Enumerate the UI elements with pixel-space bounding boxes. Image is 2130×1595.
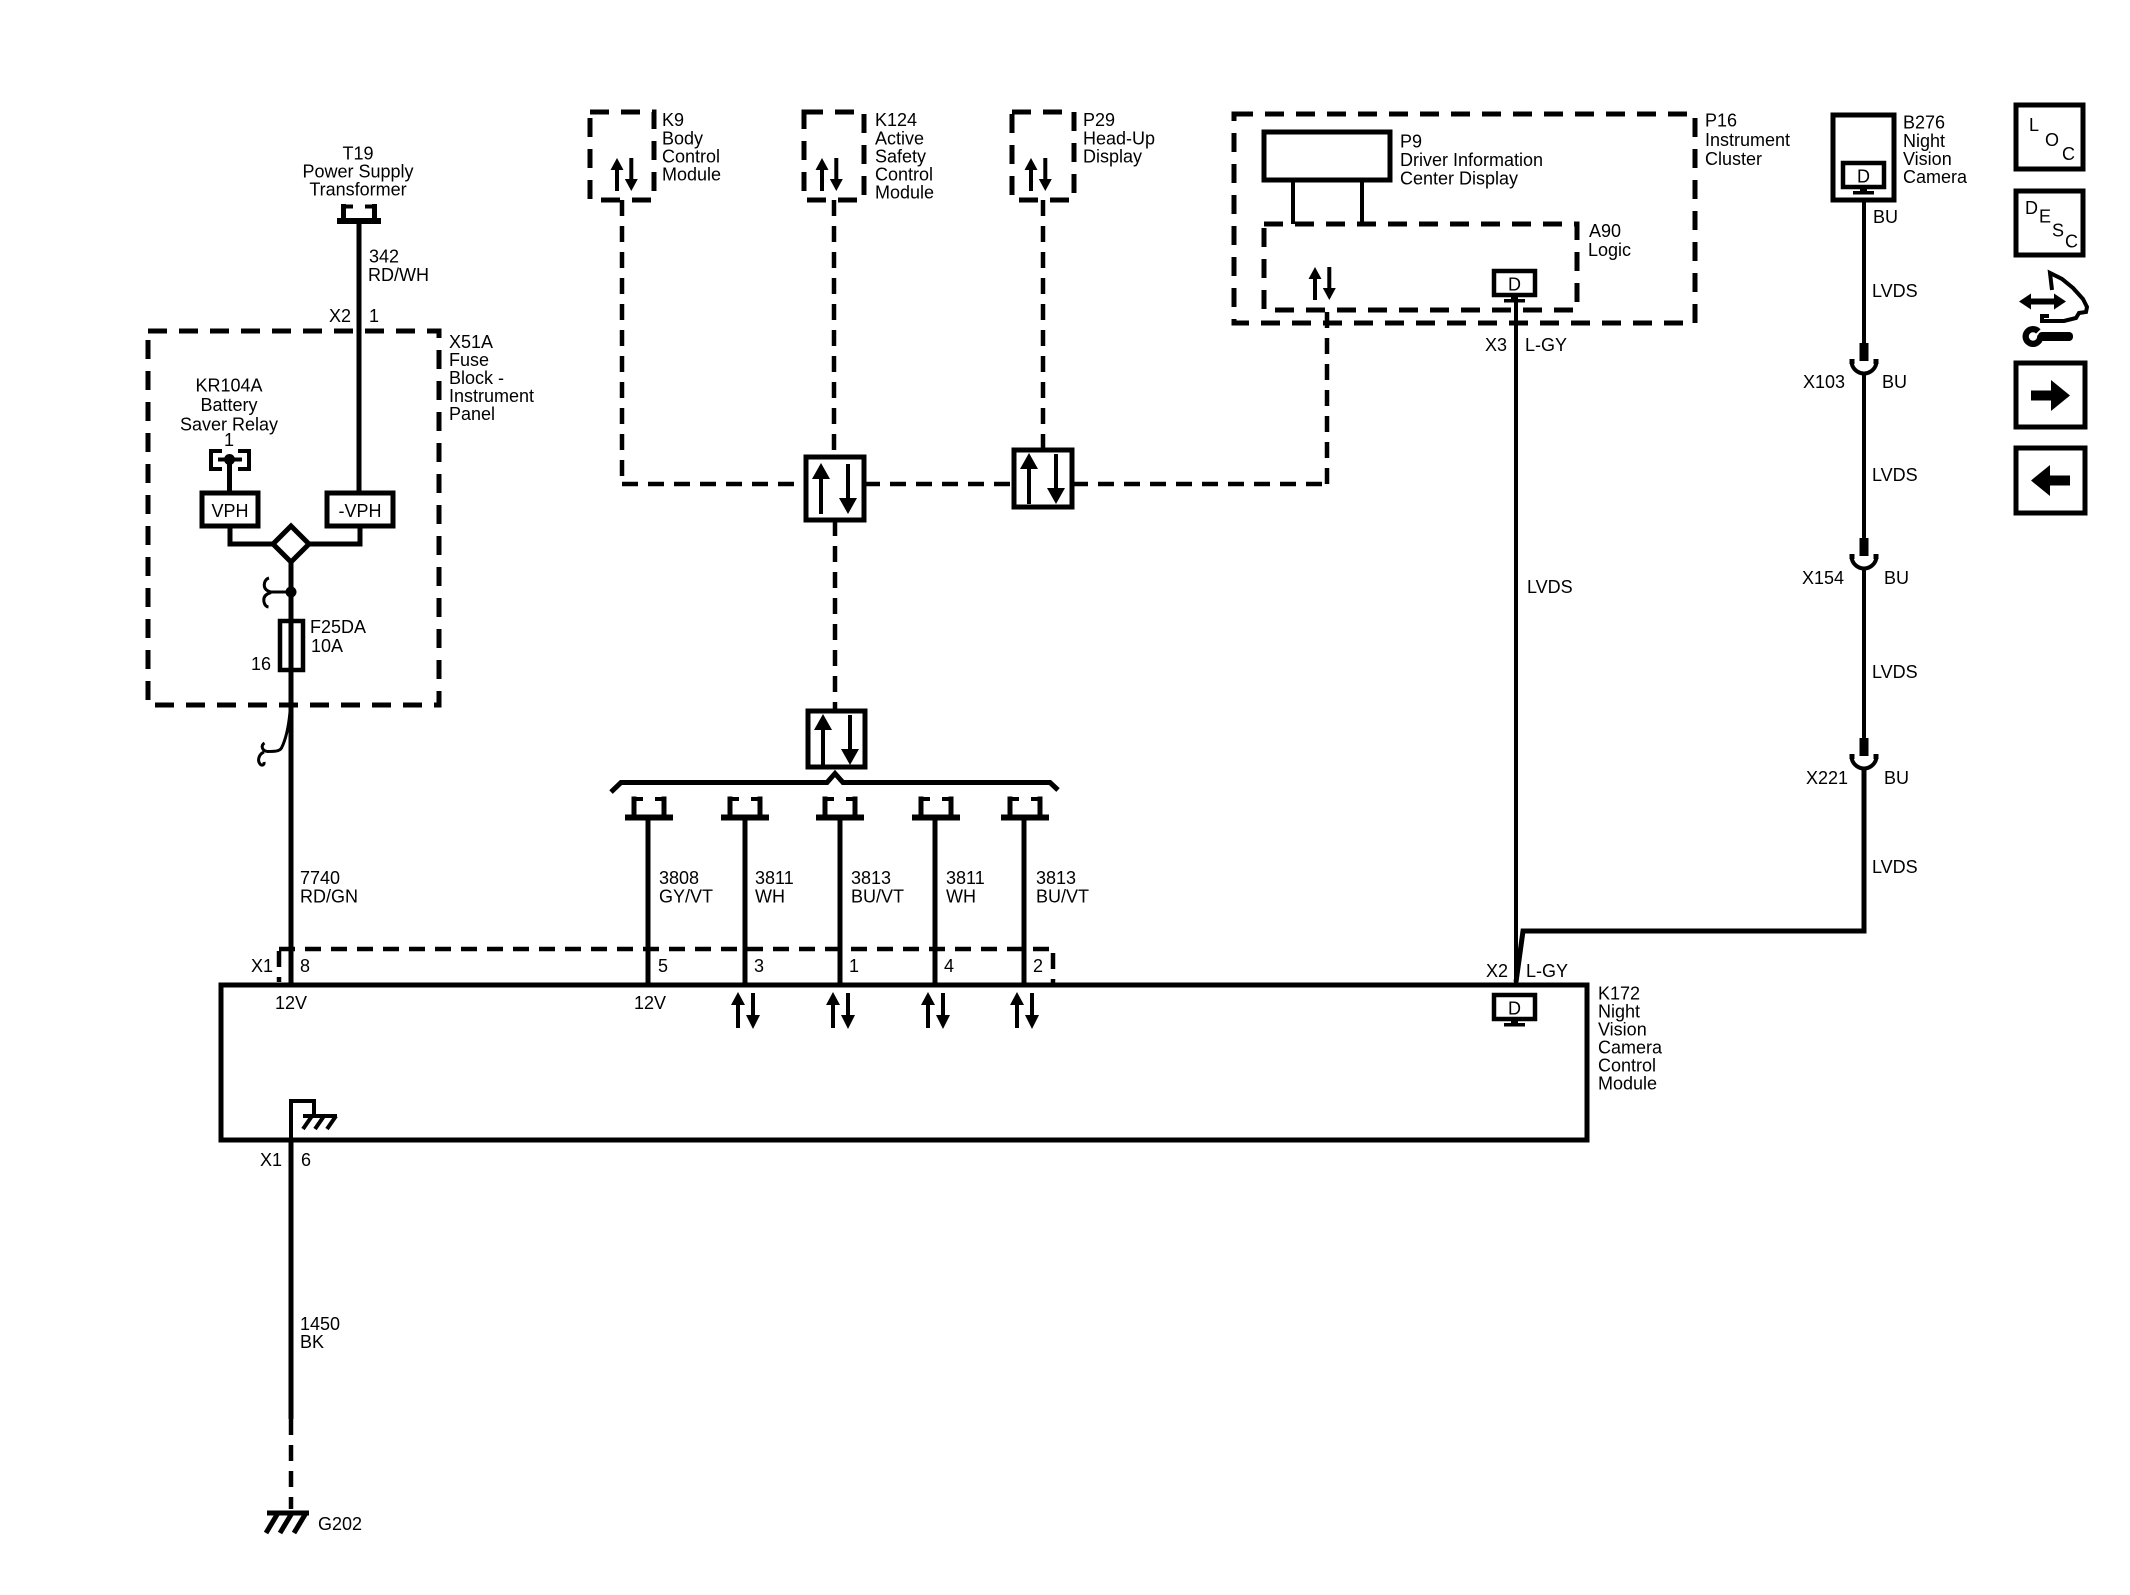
harness connector U (wire 3813 a): [816, 797, 864, 818]
wire 3813 BU/VT to K172 pin 1: [838, 820, 843, 985]
label P29 Head-Up Display: [1083, 110, 1155, 167]
svg-text:Instrument: Instrument: [1705, 130, 1790, 150]
harness connector U (wire 3813 b): [1001, 797, 1049, 818]
wire LVDS X221 to K172 connector X2: [1516, 768, 1864, 982]
label wire 3811 WH: [755, 868, 794, 907]
svg-text:WH: WH: [946, 887, 976, 907]
K172 internal ground connection: [291, 1101, 337, 1139]
module K124 dashed box: [804, 112, 864, 200]
dashed serial data bus segment K9 to K124 branch: [622, 482, 806, 487]
dashed data wire bus to A90 logic: [1325, 310, 1330, 484]
svg-text:RD/GN: RD/GN: [300, 887, 358, 907]
svg-text:K124: K124: [875, 110, 917, 130]
label K172 Night Vision Camera Control Module: [1598, 984, 1663, 1094]
K172 data arrows under pin 3: [731, 992, 760, 1029]
labels X103 BU: [1803, 372, 1907, 392]
svg-text:X1: X1: [251, 956, 273, 976]
wire VPH to splice: [230, 526, 272, 544]
wire -VPH to splice: [310, 526, 360, 544]
svg-text:6: 6: [301, 1150, 311, 1170]
terminal VPH: [202, 493, 258, 526]
legend DESC box: [2016, 191, 2083, 255]
harness connector U (wire 3811 b): [912, 797, 960, 818]
svg-text:Vision: Vision: [1598, 1020, 1647, 1040]
svg-text:16: 16: [251, 654, 271, 674]
K172 data arrows under pin 4: [921, 992, 950, 1029]
dashed data wire from K124 down to bus connector: [832, 200, 837, 457]
connector of T19 power supply transformer: [337, 204, 381, 221]
svg-text:Instrument: Instrument: [449, 386, 534, 406]
svg-text:X103: X103: [1803, 372, 1845, 392]
transformer T19 label: [302, 144, 413, 200]
dashed data wire from K9 down to bus: [620, 200, 625, 484]
dashed serial data bus segment P29 branch to A90 drop: [1072, 482, 1327, 487]
wire LVDS X103 to X154: [1862, 373, 1866, 539]
svg-text:LVDS: LVDS: [1872, 857, 1918, 877]
svg-text:Safety: Safety: [875, 147, 926, 167]
svg-text:BU: BU: [1882, 372, 1907, 392]
svg-text:WH: WH: [755, 887, 785, 907]
svg-text:P9: P9: [1400, 132, 1422, 152]
P29 serial data arrows: [1025, 158, 1052, 191]
K124 serial data arrows: [816, 158, 843, 191]
svg-text:Module: Module: [875, 183, 934, 203]
dashed serial data bus segment K124 branch to P29 branch: [864, 482, 1014, 487]
bus connector box on K124 branch: [806, 457, 864, 520]
label connector X1 pin 8: [251, 956, 310, 976]
svg-text:Fuse: Fuse: [449, 350, 489, 370]
label K124 Active Safety Control Module: [875, 110, 934, 203]
inline connector X154: [1850, 538, 1879, 569]
svg-text:BK: BK: [300, 1332, 324, 1352]
svg-text:Night: Night: [1903, 131, 1945, 151]
svg-text:2: 2: [1033, 956, 1043, 976]
K9 serial data arrows: [611, 158, 638, 191]
svg-text:BU/VT: BU/VT: [851, 887, 904, 907]
svg-text:Body: Body: [662, 129, 703, 149]
label wire 3811 WH (b): [946, 868, 985, 907]
svg-text:LVDS: LVDS: [1872, 281, 1918, 301]
wire 3808 GY/VT to K172 pin 5: [646, 820, 651, 985]
svg-text:Transformer: Transformer: [309, 180, 406, 200]
svg-text:Control: Control: [1598, 1056, 1656, 1076]
svg-text:Logic: Logic: [1588, 240, 1631, 260]
svg-text:Control: Control: [662, 147, 720, 167]
label A90 Logic: [1588, 221, 1631, 260]
module K172 Night Vision Camera Control Module box: [221, 985, 1587, 1140]
junction dot with take-off clip: [264, 578, 297, 607]
legend service wrench: [2023, 326, 2074, 347]
svg-text:C: C: [2065, 232, 2078, 252]
svg-text:Display: Display: [1083, 147, 1142, 167]
svg-text:Block -: Block -: [449, 368, 504, 388]
svg-text:Control: Control: [875, 165, 933, 185]
svg-text:GY/VT: GY/VT: [659, 887, 713, 907]
svg-text:342: 342: [369, 247, 399, 267]
svg-text:8: 8: [300, 956, 310, 976]
svg-text:3811: 3811: [946, 868, 985, 888]
svg-text:D: D: [2025, 198, 2038, 218]
fuse F25DA 10A: [280, 617, 366, 670]
label wire 3813 BU/VT (b): [1036, 868, 1089, 907]
B276 display icon D: [1843, 163, 1884, 195]
svg-text:12V: 12V: [634, 993, 666, 1013]
labels X154 BU: [1802, 568, 1909, 588]
svg-text:X51A: X51A: [449, 332, 493, 352]
svg-text:X2: X2: [1486, 961, 1508, 981]
svg-text:B276: B276: [1903, 113, 1945, 133]
legend service double arrow: [2019, 294, 2066, 310]
svg-text:X1: X1: [260, 1150, 282, 1170]
svg-text:RD/WH: RD/WH: [368, 265, 429, 285]
label X51A Fuse Block - Instrument Panel: [449, 332, 534, 424]
label wire 3808 GY/VT: [659, 868, 713, 907]
A90 serial data arrows: [1309, 267, 1336, 300]
instrument cluster P16 dashed box: [1234, 114, 1695, 323]
K172 data arrows under pin 2: [1010, 992, 1039, 1029]
svg-text:C: C: [2062, 144, 2075, 164]
inline connector X221: [1850, 738, 1879, 769]
svg-text:P16: P16: [1705, 111, 1737, 131]
svg-text:BU: BU: [1884, 768, 1909, 788]
svg-text:LVDS: LVDS: [1872, 662, 1918, 682]
label wire 7740 RD/GN: [300, 868, 358, 907]
svg-text:1: 1: [224, 430, 234, 450]
svg-text:KR104A: KR104A: [195, 376, 262, 396]
svg-text:3811: 3811: [755, 868, 794, 888]
wire 3811 WH to K172 pin 4: [933, 820, 938, 985]
svg-text:7740: 7740: [300, 868, 340, 888]
svg-text:L-GY: L-GY: [1525, 335, 1567, 355]
svg-text:12V: 12V: [275, 993, 307, 1013]
connector X1 dashed line of K172: [279, 949, 1053, 986]
bus connector box on P29 branch: [1014, 450, 1072, 507]
svg-text:Active: Active: [875, 129, 924, 149]
relay KR104A label with pin 1: [180, 376, 278, 451]
twisted-wire marker below fuse block: [259, 712, 290, 765]
label P16 Instrument Cluster: [1705, 111, 1790, 170]
harness brace: [611, 774, 1058, 793]
labels X221 BU: [1806, 768, 1909, 788]
harness connector U (wire 3808): [625, 797, 673, 818]
svg-text:Camera: Camera: [1598, 1038, 1663, 1058]
wire LVDS B276 to X103: [1862, 200, 1866, 344]
terminal -VPH: [327, 493, 393, 526]
legend service outline doodle: [2042, 273, 2087, 321]
svg-text:Driver Information: Driver Information: [1400, 150, 1543, 170]
svg-text:5: 5: [658, 956, 668, 976]
svg-text:3: 3: [754, 956, 764, 976]
legend LOC box: [2016, 105, 2083, 169]
fuse block X51A dashed box: [148, 331, 439, 705]
svg-text:1: 1: [369, 306, 379, 326]
svg-text:Power Supply: Power Supply: [302, 162, 413, 182]
label wire 3813 BU/VT: [851, 868, 904, 907]
svg-text:Center Display: Center Display: [1400, 169, 1518, 189]
legend prev-page arrow box: [2016, 448, 2085, 513]
svg-text:X221: X221: [1806, 768, 1848, 788]
label connector X1 pin 6: [260, 1150, 311, 1170]
harness connector box above brace: [808, 711, 865, 767]
svg-text:Head-Up: Head-Up: [1083, 129, 1155, 149]
svg-text:Panel: Panel: [449, 404, 495, 424]
splice diamond: [273, 526, 309, 562]
label X3 pin L-GY: [1485, 335, 1567, 355]
K172 data arrows under pin 1: [826, 992, 855, 1029]
label connector X2 pin L-GY at K172: [1486, 961, 1568, 981]
svg-text:Vision: Vision: [1903, 149, 1952, 169]
wire LVDS X154 to X221: [1862, 568, 1866, 739]
svg-text:S: S: [2052, 221, 2064, 241]
svg-text:Module: Module: [662, 165, 721, 185]
module K9 dashed box: [590, 112, 654, 200]
svg-text:3813: 3813: [851, 868, 891, 888]
svg-text:3813: 3813: [1036, 868, 1076, 888]
module P29 dashed box: [1012, 112, 1074, 200]
svg-text:BU: BU: [1873, 207, 1898, 227]
wire 1450 BK from K172 pin 6: [289, 1140, 294, 1419]
display P9 box: [1264, 132, 1390, 180]
svg-text:4: 4: [944, 956, 954, 976]
svg-text:F25DA: F25DA: [310, 617, 366, 637]
label B276 Night Vision Camera: [1903, 113, 1968, 188]
legend next-page arrow box: [2016, 363, 2085, 427]
svg-text:A90: A90: [1589, 221, 1621, 241]
ground G202: [266, 1513, 309, 1533]
svg-text:T19: T19: [342, 144, 373, 164]
svg-text:Camera: Camera: [1903, 167, 1968, 187]
harness connector U (wire 3811 a): [721, 797, 769, 818]
svg-text:Battery: Battery: [200, 395, 257, 415]
svg-text:L-GY: L-GY: [1526, 961, 1568, 981]
svg-text:X2: X2: [329, 306, 351, 326]
svg-text:10A: 10A: [311, 636, 343, 656]
svg-text:K9: K9: [662, 110, 684, 130]
camera B276 box: [1833, 115, 1894, 200]
svg-text:G202: G202: [318, 1514, 362, 1534]
svg-text:1450: 1450: [300, 1314, 340, 1334]
K172 display icon D at X2: [1494, 995, 1535, 1027]
dashed wire 1450 BK to ground: [289, 1419, 294, 1509]
svg-text:VPH: VPH: [211, 501, 248, 521]
svg-text:P29: P29: [1083, 110, 1115, 130]
label P9 Driver Information Center Display: [1400, 132, 1543, 189]
svg-text:LVDS: LVDS: [1872, 465, 1918, 485]
P9 connection legs to A90: [1293, 180, 1362, 224]
dashed data wire from P29 down to bus connector: [1041, 200, 1046, 450]
svg-text:-VPH: -VPH: [338, 501, 381, 521]
svg-text:O: O: [2045, 130, 2059, 150]
label wire 1450 BK: [300, 1314, 340, 1352]
svg-text:K172: K172: [1598, 984, 1640, 1004]
wire splice to K172 pin 8 (7740 RD/GN): [289, 562, 294, 985]
label K9 Body Control Module: [662, 110, 721, 185]
svg-text:BU: BU: [1884, 568, 1909, 588]
svg-text:X3: X3: [1485, 335, 1507, 355]
wire 3811 WH to K172 pin 3: [743, 820, 748, 985]
svg-text:Module: Module: [1598, 1074, 1657, 1094]
svg-text:1: 1: [849, 956, 859, 976]
svg-text:E: E: [2039, 207, 2051, 227]
label wire 342 RD/WH: [368, 247, 429, 286]
svg-text:L: L: [2029, 115, 2039, 135]
relay KR104A contact: [211, 451, 249, 469]
svg-text:X154: X154: [1802, 568, 1844, 588]
inline connector X103: [1850, 343, 1879, 374]
display icon D in A90: [1494, 271, 1535, 303]
svg-text:BU/VT: BU/VT: [1036, 887, 1089, 907]
wire 3813 BU/VT to K172 pin 2: [1022, 820, 1027, 985]
svg-text:Cluster: Cluster: [1705, 149, 1762, 169]
logic A90 dashed box: [1264, 224, 1577, 310]
svg-text:Night: Night: [1598, 1002, 1640, 1022]
svg-text:LVDS: LVDS: [1527, 577, 1573, 597]
connector X2 pin 1 labels: [329, 306, 379, 326]
svg-text:3808: 3808: [659, 868, 699, 888]
wire relay contact to VPH terminal: [227, 461, 232, 496]
wire 342 RD/WH from T19 to -VPH terminal: [357, 224, 362, 496]
wire X3 L-GY LVDS from A90 display to K172 X2: [1514, 302, 1518, 985]
dashed data wire from bus connector to harness connector: [833, 520, 838, 711]
